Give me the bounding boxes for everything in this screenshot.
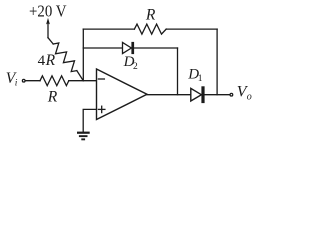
- svg-text:o: o: [247, 91, 252, 102]
- node Vo terminal: [229, 93, 233, 97]
- label D2: [123, 54, 138, 72]
- svg-text:2: 2: [133, 62, 138, 72]
- wire feedback down to output node: [216, 29, 218, 95]
- wire D1 to Vo: [205, 94, 230, 96]
- wire D2 branch left: [83, 47, 122, 49]
- label Vi: [6, 70, 18, 88]
- label 4R: [38, 52, 56, 69]
- svg-text:R: R: [145, 6, 156, 23]
- diode D2: [123, 42, 135, 54]
- wire top feedback right: [166, 28, 217, 30]
- label Vo: [237, 83, 252, 102]
- diode D1: [191, 86, 205, 103]
- wire 4R to node: [77, 71, 84, 81]
- svg-text:i: i: [15, 79, 18, 89]
- wire arrow to 4R: [48, 38, 53, 44]
- ground: [77, 132, 90, 141]
- node Vi terminal: [22, 79, 26, 83]
- resistor R (feedback): [134, 24, 166, 34]
- wire top feedback left: [83, 28, 134, 30]
- svg-text:R: R: [45, 52, 56, 69]
- svg-text:4: 4: [38, 53, 46, 69]
- wire R to op-amp inverting input, node A: [69, 80, 97, 82]
- op-amp minus input sign: [98, 78, 104, 80]
- wire Vi to R: [25, 80, 40, 82]
- op-amp U1: [97, 69, 148, 120]
- wire op-amp output: [147, 94, 191, 96]
- wire feedback vertical at node A: [82, 29, 84, 81]
- svg-text:+20 V: +20 V: [29, 1, 67, 20]
- wire plus input to ground: [83, 109, 96, 131]
- wire D2 return down to op-amp output: [177, 48, 179, 95]
- wire D2 to return vertical: [134, 47, 177, 49]
- op-amp plus input sign: [99, 106, 105, 112]
- svg-text:R: R: [47, 89, 58, 106]
- label D1: [187, 66, 203, 84]
- resistor R (input): [40, 76, 69, 86]
- svg-text:1: 1: [198, 74, 203, 84]
- supply arrow: [46, 18, 50, 38]
- resistor 4R: [53, 43, 77, 72]
